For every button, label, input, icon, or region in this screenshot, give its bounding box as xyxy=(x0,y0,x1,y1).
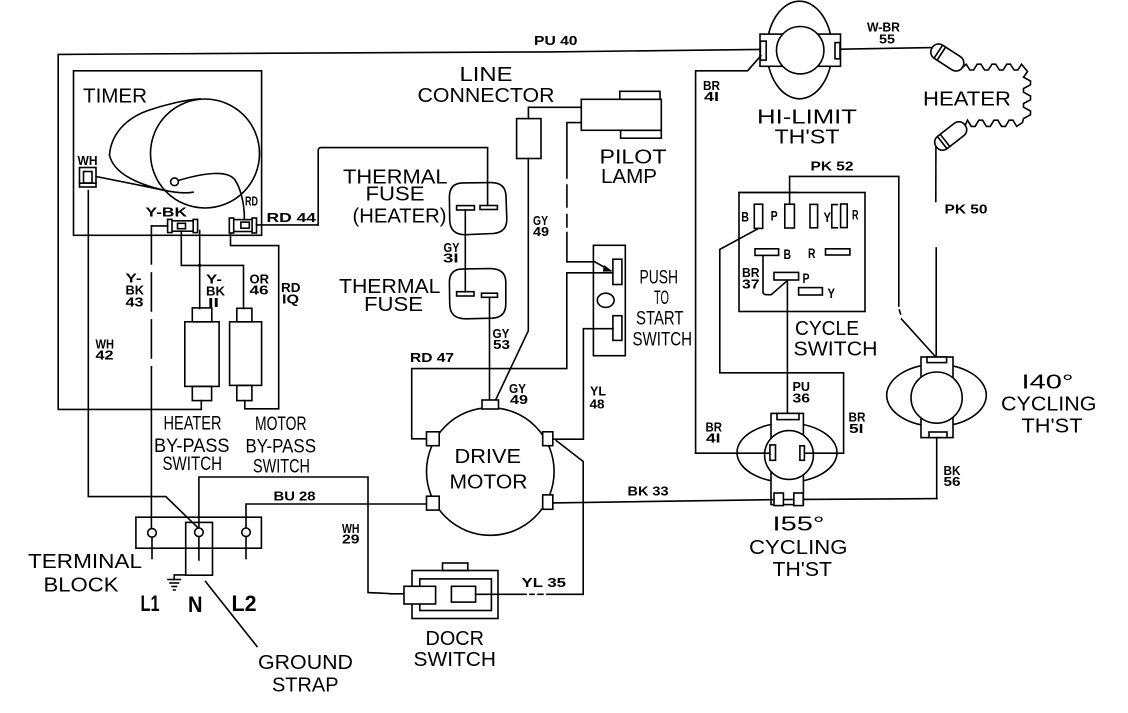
thermal fuse (heater) contacts xyxy=(457,206,475,210)
svg-text:Y: Y xyxy=(824,210,832,225)
L2 lead xyxy=(245,537,247,559)
motor terminal lower-right xyxy=(543,495,553,509)
cycle switch contact R xyxy=(841,204,848,228)
heater by-pass switch xyxy=(185,322,219,387)
svg-text:4I: 4I xyxy=(704,89,719,104)
heater element zigzag xyxy=(963,64,1031,126)
wire BU 28 (L2 to drive motor) xyxy=(246,504,427,528)
wire BK 33 (drive motor to thermostats) xyxy=(553,499,937,503)
svg-text:PU 40: PU 40 xyxy=(534,33,578,48)
motor terminal lower-left xyxy=(427,496,440,510)
svg-text:SWITCH: SWITCH xyxy=(163,454,223,475)
wire PU 40 (left border and top run to hi-limit) xyxy=(58,49,760,409)
svg-text:IQ: IQ xyxy=(282,292,299,307)
door switch xyxy=(412,571,498,619)
svg-text:5I: 5I xyxy=(849,421,864,436)
timer cam circle xyxy=(151,99,260,208)
wire YL 48 (push-to-start to motor) xyxy=(553,329,613,440)
wire WH connector to cam xyxy=(96,177,165,191)
heater bottom plug xyxy=(932,119,970,153)
svg-text:TERMINAL: TERMINAL xyxy=(28,551,142,573)
timer pivot circle xyxy=(171,178,179,186)
svg-text:PUSH: PUSH xyxy=(640,267,679,288)
svg-text:42: 42 xyxy=(96,348,114,363)
ground strap callout line xyxy=(206,582,258,647)
wire W-BR 55 (hi-limit to heater) xyxy=(841,48,933,50)
wire GY 31 xyxy=(464,210,466,292)
timer WH connector xyxy=(80,168,97,188)
terminal L1 xyxy=(148,529,157,538)
svg-text:DOCR: DOCR xyxy=(426,628,485,650)
svg-text:FUSE: FUSE xyxy=(364,294,423,316)
terminal N xyxy=(195,528,204,537)
svg-text:HEATER: HEATER xyxy=(923,88,1011,110)
cycle switch box xyxy=(739,193,865,312)
wire PK 52 (cycle switch P to 140 thermostat) xyxy=(789,176,791,204)
svg-text:TH'ST: TH'ST xyxy=(773,559,833,581)
cycle switch contact R middle xyxy=(826,249,850,255)
timer Y-BK terminal xyxy=(170,221,196,231)
svg-text:CYCLING: CYCLING xyxy=(1001,394,1097,416)
svg-text:N: N xyxy=(188,592,203,617)
pilot lamp xyxy=(581,99,661,130)
cycle switch contact P xyxy=(785,204,795,228)
thermal fuse body xyxy=(449,269,505,319)
svg-text:BLOCK: BLOCK xyxy=(44,575,120,597)
thermal fuse (heater) body xyxy=(449,183,506,235)
cycle switch contact P bottom xyxy=(774,272,799,280)
wire YL 35 (door switch to motor) xyxy=(476,593,583,595)
wire BK 56 xyxy=(936,438,938,499)
svg-text:Y: Y xyxy=(828,286,836,301)
svg-text:RD: RD xyxy=(245,194,258,209)
155 thermostat bottom tabs xyxy=(774,493,783,506)
svg-text:I55°: I55° xyxy=(773,514,825,536)
timer box xyxy=(74,71,262,236)
svg-text:GROUND: GROUND xyxy=(258,652,353,674)
wire BR 41 (hi-limit to 155 thermostat) xyxy=(696,56,761,453)
thermal fuse contacts xyxy=(457,292,474,296)
svg-text:CONNECTOR: CONNECTOR xyxy=(418,85,555,107)
wire BR 37 / BR 51 (cycle switch B to 155 thermostat) xyxy=(720,228,844,453)
wire GY 49 (line connector to motor) xyxy=(496,158,529,400)
svg-text:RD 47: RD 47 xyxy=(410,350,454,365)
svg-text:PILOT: PILOT xyxy=(600,146,667,168)
svg-text:SWITCH: SWITCH xyxy=(794,338,878,360)
svg-text:TIMER: TIMER xyxy=(83,86,147,108)
svg-text:56: 56 xyxy=(944,474,961,489)
svg-text:R: R xyxy=(852,208,859,223)
svg-text:3I: 3I xyxy=(443,251,459,266)
svg-text:BY-PASS: BY-PASS xyxy=(246,437,317,458)
svg-text:R: R xyxy=(808,246,816,261)
svg-text:P: P xyxy=(803,271,810,286)
svg-text:LINE: LINE xyxy=(460,64,513,86)
wire OR 46 (Y-BK terminal to motor by-pass) xyxy=(181,231,243,308)
cycle switch contact B middle xyxy=(755,249,779,256)
timer RD terminal xyxy=(234,220,253,232)
svg-text:MOTOR: MOTOR xyxy=(255,414,307,435)
motor terminal upper-left xyxy=(427,432,440,446)
svg-text:4I: 4I xyxy=(706,431,721,446)
155 thermostat terminal stubs xyxy=(764,452,770,454)
ground strap box xyxy=(186,522,213,575)
line connector xyxy=(517,119,541,159)
svg-text:SWITCH: SWITCH xyxy=(414,649,497,671)
drive motor xyxy=(427,408,555,536)
wire WH 42 (timer WH to terminal N) xyxy=(88,191,198,529)
svg-text:SWITCH: SWITCH xyxy=(253,457,310,478)
svg-text:PK 50: PK 50 xyxy=(945,202,988,217)
svg-text:YL 35: YL 35 xyxy=(522,575,567,590)
svg-text:CYCLING: CYCLING xyxy=(749,537,848,559)
svg-text:CYCLE: CYCLE xyxy=(795,318,859,340)
arrowhead at push-to-start contact xyxy=(603,265,613,272)
svg-text:PK 52: PK 52 xyxy=(811,159,854,174)
svg-text:FUSE: FUSE xyxy=(366,184,425,206)
svg-text:BU 28: BU 28 xyxy=(274,489,316,504)
L1 lead xyxy=(151,537,153,558)
timer cam lobe xyxy=(110,99,201,155)
svg-text:RD 44: RD 44 xyxy=(267,210,317,225)
svg-text:P: P xyxy=(771,209,778,224)
svg-text:29: 29 xyxy=(342,532,360,547)
155 cycling thermostat xyxy=(737,423,837,482)
terminal L2 xyxy=(242,528,251,537)
svg-text:49: 49 xyxy=(533,224,549,239)
wire RD 44 (timer RD to thermal fuse) xyxy=(257,224,318,226)
svg-text:I40°: I40° xyxy=(1022,372,1074,394)
push-to-start switch xyxy=(593,245,625,355)
cycle switch contact Y bottom xyxy=(799,288,823,295)
svg-text:(HEATER): (HEATER) xyxy=(353,206,447,228)
svg-text:HI-LIMIT: HI-LIMIT xyxy=(757,107,857,129)
terminal block xyxy=(136,517,262,548)
wire GY 53 (thermal fuse to motor) xyxy=(489,298,491,400)
140 cycling thermostat xyxy=(887,364,987,426)
svg-text:STRAP: STRAP xyxy=(272,675,339,697)
svg-text:LAMP: LAMP xyxy=(601,166,657,188)
wire Y-BK 43 pin from terminal xyxy=(151,225,167,227)
svg-text:L1: L1 xyxy=(141,591,160,616)
wire Y-BK 43 dashed drop xyxy=(150,226,152,367)
timer wire pivot to RD terminal xyxy=(178,173,244,213)
svg-text:BK 33: BK 33 xyxy=(628,484,669,499)
svg-text:TO: TO xyxy=(654,288,669,309)
svg-text:TH'ST: TH'ST xyxy=(775,126,840,148)
svg-text:49: 49 xyxy=(510,392,528,407)
svg-text:MOTOR: MOTOR xyxy=(450,472,528,494)
svg-text:46: 46 xyxy=(250,283,269,298)
wire pilot lamp to push-to-start xyxy=(567,123,581,262)
motor terminal top xyxy=(482,400,499,409)
svg-text:DRIVE: DRIVE xyxy=(455,446,522,468)
svg-text:Y-BK: Y-BK xyxy=(146,205,188,220)
svg-text:TH'ST: TH'ST xyxy=(1022,416,1083,438)
svg-text:B: B xyxy=(741,210,749,225)
wire Y-BK 11 (timer to heater by-pass) xyxy=(199,231,201,309)
cycle switch contact Y xyxy=(810,204,818,227)
svg-text:WH: WH xyxy=(78,153,98,168)
heater top plug xyxy=(928,41,967,74)
svg-text:36: 36 xyxy=(793,391,811,406)
hi-limit thermostat xyxy=(767,1,832,99)
cycle switch internal wire B-middle to P xyxy=(763,255,787,294)
cycle switch contact B xyxy=(754,204,762,228)
motor terminal upper-right xyxy=(543,432,553,446)
svg-text:START: START xyxy=(636,308,684,329)
wire RD 10 (RD terminal to motor by-pass bottom) xyxy=(231,233,279,409)
junction at Y-BK11 crossing xyxy=(198,264,201,267)
svg-text:37: 37 xyxy=(742,277,760,292)
svg-text:43: 43 xyxy=(126,295,144,310)
wire PU 36 (cycle switch P to 155 thermostat) xyxy=(786,281,788,312)
svg-text:48: 48 xyxy=(590,397,605,412)
wire Y-BK 43 solid drop to L1 xyxy=(150,367,152,529)
N lead xyxy=(198,537,200,560)
svg-text:53: 53 xyxy=(493,337,510,352)
wire PK 50 (heater to 140 thermostat) xyxy=(935,148,937,202)
wire WH 29 (N to door switch) xyxy=(199,477,390,594)
ground symbol xyxy=(174,575,186,580)
wire line connector to pilot lamp xyxy=(528,107,581,118)
svg-text:SWITCH: SWITCH xyxy=(633,329,693,350)
svg-text:B: B xyxy=(784,247,792,262)
motor by-pass switch xyxy=(230,322,262,386)
svg-text:L2: L2 xyxy=(232,591,257,616)
wire RD 47 (push-to-start to motor) xyxy=(412,273,613,439)
svg-text:55: 55 xyxy=(879,32,895,47)
svg-text:HEATER: HEATER xyxy=(164,413,222,434)
